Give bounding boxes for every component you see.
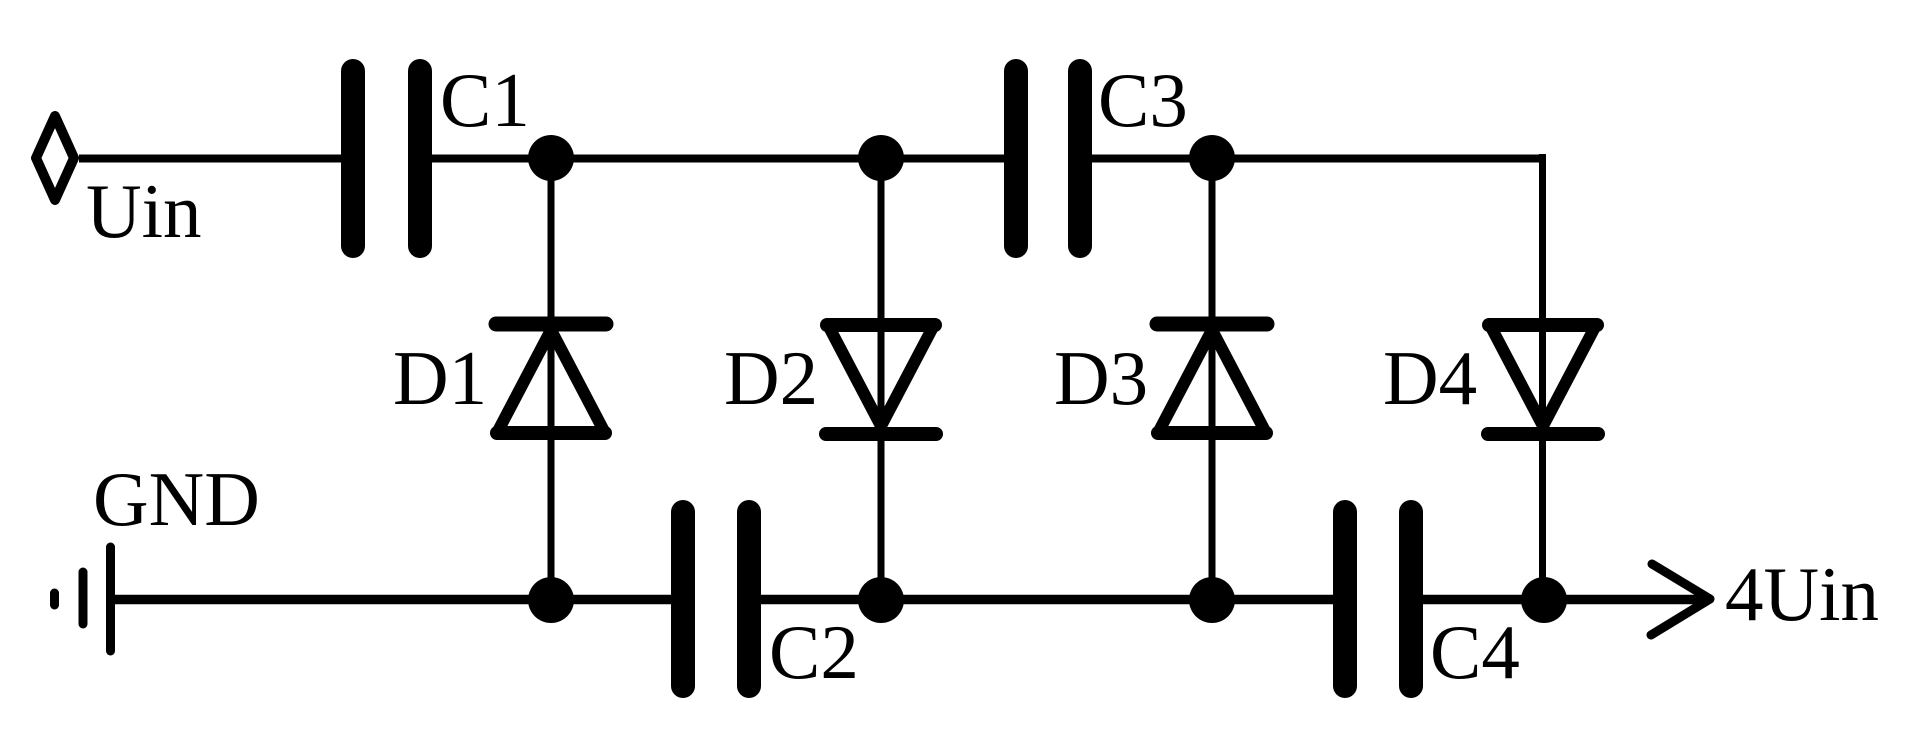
ground symbol [55,547,111,651]
svg-text:4Uin: 4Uin [1725,551,1879,637]
diode D4 (pointing down, cathode bar on bottom) [1488,325,1598,434]
diode D1 (pointing up, cathode bar on top) [496,324,606,433]
svg-text:D2: D2 [724,335,818,421]
wire right vertical: corner down through D4 to output node [1539,154,1546,600]
wire top rail: diamond to C1 [79,155,345,163]
svg-text:D1: D1 [393,335,487,421]
label D3 [1054,335,1148,421]
label D4 [1383,335,1477,421]
wire bottom rail: C2 to C4 [761,595,1337,605]
label GND [93,456,260,542]
svg-text:C4: C4 [1430,609,1520,695]
svg-text:Uin: Uin [86,168,202,254]
node D (bottom, D1/C2) [528,577,574,623]
label C1 [440,57,530,143]
wire vertical D3 branch [1209,158,1216,600]
wire top rail: C3 to top-right corner [1091,155,1546,163]
wire vertical D1 branch [548,158,555,600]
label 4Uin [1725,551,1879,637]
capacitor C3 [1016,71,1080,246]
label C3 [1098,57,1188,143]
wire top rail: C1 to C3 [432,155,1008,163]
svg-text:C1: C1 [440,57,530,143]
svg-text:D4: D4 [1383,335,1477,421]
label C2 [769,609,859,695]
node E (bottom, C2/D2) [858,577,904,623]
capacitor C2 [683,512,749,686]
input terminal Uin (diamond) [36,116,74,200]
wire bottom rail: GND to C2 [110,595,675,605]
wire vertical D2 branch [878,158,885,600]
wire bottom rail: C4 to output arrow [1423,595,1703,605]
node G (bottom output, D4/C4) [1521,577,1567,623]
label D2 [724,335,818,421]
label C4 [1430,609,1520,695]
label Uin [86,168,202,254]
svg-text:GND: GND [93,456,260,542]
diode D3 (pointing up, cathode bar on top) [1157,324,1267,433]
svg-text:D3: D3 [1054,335,1148,421]
node B (top, D2/C3) [858,135,904,181]
diode D2 (pointing down, cathode bar on bottom) [826,325,936,434]
node F (bottom, D3/C4) [1189,577,1235,623]
capacitor C4 [1345,512,1411,686]
output arrow [1651,564,1710,635]
node A (top, C1/D1) [528,135,574,181]
svg-text:C3: C3 [1098,57,1188,143]
label D1 [393,335,487,421]
svg-text:C2: C2 [769,609,859,695]
node C (top, C3/D3) [1189,135,1235,181]
capacitor C1 [353,71,420,246]
